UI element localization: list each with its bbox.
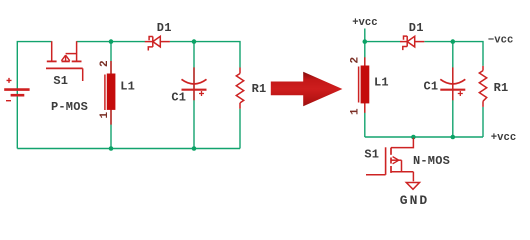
transistor S1 arrow (right) bbox=[393, 157, 399, 164]
node S1 drain (right) bbox=[411, 135, 416, 140]
wire bottom rail right circuit bbox=[365, 136, 483, 138]
svg-text:C1: C1 bbox=[424, 80, 439, 94]
node L1 bottom bbox=[109, 146, 114, 151]
node top rail left T (right circuit) bbox=[363, 39, 368, 44]
diode D1 (right) bbox=[400, 36, 424, 50]
svg-text:P-MOS: P-MOS bbox=[51, 100, 88, 114]
wire left rail and top rail to S1 bbox=[17, 42, 51, 149]
wire L1 branch right bbox=[364, 42, 366, 137]
wire C1 branch right bbox=[452, 42, 454, 137]
diode D1 (left) bbox=[145, 36, 170, 50]
resistor R1 (left) bbox=[236, 68, 243, 109]
svg-text:L1: L1 bbox=[120, 80, 135, 94]
svg-text:−vcc: −vcc bbox=[488, 35, 513, 47]
wire +vcc stub (right) bbox=[364, 29, 366, 42]
capacitor C1 (left) bbox=[193, 67, 195, 100]
resistor R1 (right) bbox=[479, 66, 486, 107]
transistor S1 N-MOS symbol bbox=[366, 138, 413, 182]
svg-text:GND: GND bbox=[400, 193, 429, 208]
svg-text:L1: L1 bbox=[374, 76, 389, 90]
svg-text:D1: D1 bbox=[409, 21, 424, 35]
svg-text:+vcc: +vcc bbox=[491, 132, 516, 144]
wire right rail below R1 bbox=[239, 109, 241, 149]
svg-text:1: 1 bbox=[350, 108, 362, 115]
svg-text:+vcc: +vcc bbox=[352, 17, 377, 29]
wire L1 branch bbox=[110, 42, 112, 149]
svg-text:2: 2 bbox=[99, 60, 111, 67]
wire right R1 lower bbox=[482, 107, 484, 137]
inductor L1 (right) bbox=[364, 57, 366, 113]
node C1 bottom bbox=[192, 146, 197, 151]
node L1 top bbox=[109, 39, 114, 44]
svg-text:R1: R1 bbox=[252, 82, 267, 96]
wire top rail right: stub to D1 bbox=[365, 41, 400, 43]
wire top rail D1 to R1 corner bbox=[170, 42, 240, 68]
node C1 bottom (right) bbox=[451, 135, 456, 140]
svg-text:C1: C1 bbox=[171, 90, 186, 104]
svg-text:1: 1 bbox=[99, 112, 111, 119]
svg-text:R1: R1 bbox=[494, 81, 509, 95]
node C1 top (right) bbox=[451, 39, 456, 44]
node C1 top bbox=[192, 39, 197, 44]
big red arrow bbox=[271, 72, 343, 107]
svg-text:D1: D1 bbox=[157, 21, 172, 35]
svg-text:N-MOS: N-MOS bbox=[413, 154, 450, 168]
ground symbol bbox=[406, 183, 419, 190]
wire bottom rail left circuit bbox=[17, 148, 240, 150]
inductor L1 (left) bbox=[110, 61, 112, 125]
wire top rail S1 to D1 bbox=[77, 41, 145, 43]
svg-text:S1: S1 bbox=[364, 147, 379, 161]
battery BT1 bbox=[4, 78, 29, 101]
svg-text:S1: S1 bbox=[53, 74, 68, 88]
svg-text:2: 2 bbox=[350, 57, 362, 64]
wire top rail right: D1 to R1 corner bbox=[424, 42, 483, 66]
transistor S1 P-MOS symbol bbox=[46, 41, 83, 81]
capacitor C1 (right) bbox=[452, 67, 454, 100]
wire C1 branch bbox=[193, 42, 195, 149]
transistor S1 arrow bbox=[61, 55, 69, 61]
